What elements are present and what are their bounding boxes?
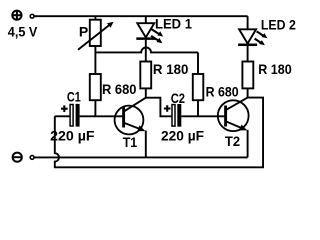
capacitor C2: [164, 104, 181, 127]
wire: base feed branch from P to both 680 ohm resistors: [95, 48, 198, 53]
svg-text:T1: T1: [123, 134, 138, 150]
potentiometer P: [78, 16, 114, 74]
LED 2: [238, 16, 267, 61]
svg-text:R 680: R 680: [206, 84, 239, 100]
transistor T2: [218, 98, 249, 158]
transistor T1: [115, 98, 146, 158]
battery plus terminal symbol: [12, 11, 21, 20]
svg-text:P: P: [79, 24, 88, 40]
wire: R680 left lead down to T1 base node: [94, 100, 96, 116]
resistor R 680 (left): [90, 74, 101, 100]
wire: R180 left lead to T1 collector node: [145, 88, 147, 97]
svg-text:R 180: R 180: [153, 61, 189, 77]
svg-text:R 180: R 180: [258, 61, 292, 77]
wire: C2 to T2 base: [181, 115, 225, 117]
resistor R 180 (right): [242, 62, 253, 89]
svg-text:T2: T2: [225, 133, 240, 149]
wire: R180 right lead to T2 collector node: [247, 88, 249, 97]
wire: top supply rail: [34, 15, 248, 17]
wire: C1 to T1 base: [80, 115, 123, 117]
svg-text:4,5 V: 4,5 V: [8, 24, 38, 40]
resistor R 180 (left): [140, 62, 151, 89]
wire: bottom ground rail: [34, 156, 248, 158]
svg-text:C1: C1: [67, 88, 81, 104]
minus supply terminal (open circle): [30, 156, 34, 160]
resistor R 680 (right): [193, 52, 204, 116]
capacitor C1: [55, 104, 80, 127]
svg-text:220 µF: 220 µF: [161, 128, 204, 144]
svg-text:LED 2: LED 2: [261, 16, 296, 32]
svg-text:R 680: R 680: [102, 81, 137, 97]
LED 1: [136, 16, 163, 61]
plus supply terminal (open circle): [30, 14, 34, 18]
svg-text:220 µF: 220 µF: [50, 128, 95, 144]
battery minus terminal symbol: [13, 153, 22, 162]
svg-text:LED 1: LED 1: [155, 16, 192, 32]
wire: T1 collector node to C2: [146, 98, 172, 117]
svg-text:C2: C2: [171, 90, 185, 106]
wire: cross coupling C1 to T2 collector (hop over ground rail): [55, 98, 263, 168]
